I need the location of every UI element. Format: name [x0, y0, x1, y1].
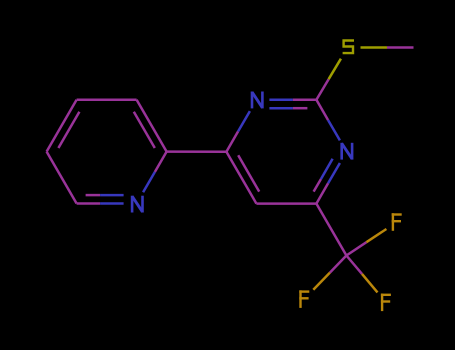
double bond N3=C4 (pyrimidine) — [314, 159, 340, 204]
bond C4-C5 (pyrimidine) — [256, 202, 316, 205]
bond N1p-C2p (pyridine) — [143, 152, 167, 193]
atom N label (N1) — [252, 92, 262, 109]
atom S label (S) — [343, 41, 354, 54]
double bond N1=C2 (pyrimidine) — [269, 100, 316, 108]
bond C6-C2prime (inter-ring) — [167, 150, 227, 153]
atom N label (N1p) — [132, 196, 142, 213]
bond C7-F2 — [313, 256, 346, 290]
bond C2-S (thioether) — [316, 59, 341, 100]
atom F label (F2) — [299, 290, 309, 308]
bond C2-N3 (pyrimidine) — [316, 100, 340, 141]
double bond C5=C6 (pyrimidine) — [226, 152, 259, 204]
atom N label (N3) — [342, 143, 352, 160]
double bond C2p=C3p (pyridine) — [134, 100, 167, 152]
atom F label (F3) — [381, 294, 391, 312]
bond C7-F1 — [346, 229, 386, 256]
bond C3p-C4p (pyridine) — [77, 98, 137, 101]
bond S-CH3 (methyl) — [361, 46, 414, 49]
bond C7-F3 — [346, 256, 377, 293]
double bond C4p=C5p (pyridine) — [47, 100, 80, 152]
bond C6-N1 (pyrimidine) — [226, 111, 250, 152]
bond C5p-C6p (pyridine) — [47, 152, 77, 204]
double bond C6p=N1p (pyridine) — [77, 195, 124, 203]
bond C4-C7 (to CF3 carbon) — [316, 204, 346, 256]
atom F label (F1) — [392, 213, 402, 231]
